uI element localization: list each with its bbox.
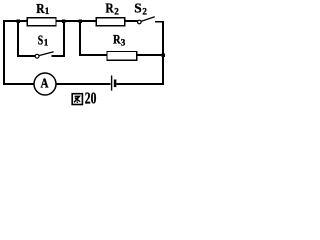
- svg-text:1: 1: [45, 6, 50, 16]
- svg-text:1: 1: [44, 37, 49, 47]
- svg-text:2: 2: [114, 6, 119, 16]
- svg-text:20: 20: [85, 89, 97, 108]
- svg-text:3: 3: [121, 38, 126, 48]
- svg-text:S: S: [38, 33, 43, 48]
- svg-text:R: R: [105, 1, 114, 16]
- svg-text:A: A: [41, 76, 49, 91]
- svg-text:2: 2: [142, 6, 147, 16]
- svg-text:S: S: [134, 1, 141, 16]
- svg-text:R: R: [36, 1, 45, 16]
